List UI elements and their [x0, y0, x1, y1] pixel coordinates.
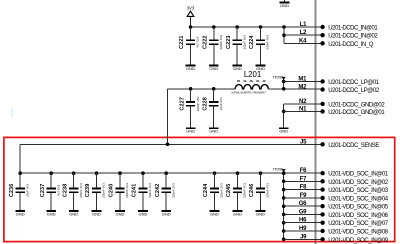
- net label U201-DCDC_GND@01: [328, 110, 385, 116]
- svg-text:F7: F7: [300, 176, 307, 182]
- net label U201-DCDC_LP@02: [328, 88, 379, 94]
- capacitor C246: [249, 173, 270, 216]
- ground (top edge): [280, 0, 290, 8]
- wire DCDC_SENSE: [20, 143, 320, 145]
- svg-text:U201-DCDC_IN@02: U201-DCDC_IN@02: [328, 34, 378, 40]
- pin F9: [300, 193, 325, 200]
- svg-text:GND: GND: [209, 66, 218, 71]
- junction at C244: [213, 171, 217, 175]
- svg-text:C238: C238: [62, 184, 68, 198]
- svg-text:GND: GND: [92, 211, 101, 216]
- svg-text:GND: GND: [16, 211, 25, 216]
- net label U201-DCDC_IN_Q: [328, 42, 373, 48]
- svg-text:3V3: 3V3: [187, 5, 195, 10]
- svg-text:C222: C222: [203, 35, 209, 49]
- capacitor C240: [109, 173, 130, 216]
- svg-text:C236: C236: [9, 184, 15, 198]
- svg-text:C237: C237: [40, 184, 46, 198]
- svg-text:J9: J9: [300, 234, 307, 240]
- wire TP255 drop: [283, 79, 285, 89]
- svg-text:4u7 6V3: 4u7 6V3: [56, 184, 60, 196]
- svg-text:C242: C242: [155, 184, 161, 198]
- pin F7: [300, 176, 325, 183]
- wire 3V3 rail to pin L1: [191, 26, 321, 28]
- wire to pin G6: [282, 204, 320, 208]
- capacitor C241: [132, 173, 153, 216]
- pin G9: [299, 209, 325, 216]
- wire to pin H9: [282, 229, 320, 233]
- wire pin ladder: [283, 173, 285, 239]
- svg-text:F9: F9: [300, 193, 307, 199]
- junction at C246: [259, 171, 263, 175]
- wire branch to L2/K4: [283, 27, 285, 43]
- junction at C237: [49, 171, 53, 175]
- wire to pin N1: [284, 110, 321, 112]
- svg-text:4u7 6V3: 4u7 6V3: [196, 36, 200, 48]
- capacitor C242: [155, 173, 176, 216]
- svg-text:U201-VDD_SOC_IN@05: U201-VDD_SOC_IN@05: [328, 205, 388, 211]
- ground N pins: [279, 128, 289, 133]
- svg-text:C223: C223: [226, 35, 232, 49]
- wire to pin M1: [284, 81, 321, 83]
- svg-text:U201-VDD_SOC_IN@07: U201-VDD_SOC_IN@07: [328, 221, 388, 227]
- capacitor C223: [226, 27, 247, 71]
- svg-text:GND: GND: [186, 66, 195, 71]
- svg-text:220nF 16V: 220nF 16V: [196, 96, 200, 111]
- svg-text:220nF 6V3: 220nF 6V3: [125, 183, 129, 198]
- wire coil to pin M2: [268, 88, 320, 90]
- net label U201-VDD_SOC_IN@01: [328, 172, 388, 178]
- pin F8: [300, 185, 325, 192]
- svg-text:220nF 6V3: 220nF 6V3: [266, 183, 270, 198]
- pin N1: [299, 106, 325, 113]
- net label U201-VDD_SOC_IN@05: [328, 205, 388, 211]
- pin L1: [300, 22, 325, 29]
- wire LP rail drop: [167, 89, 169, 145]
- junction at C245: [236, 171, 240, 175]
- pin F6: [300, 168, 325, 175]
- net label U201-DCDC_GND@02: [328, 102, 385, 108]
- junction at C228: [212, 87, 216, 91]
- svg-text:C221: C221: [179, 35, 185, 49]
- svg-text:GND: GND: [47, 211, 56, 216]
- svg-text:C245: C245: [226, 184, 232, 198]
- svg-text:TP256: TP256: [273, 168, 283, 172]
- svg-text:G6: G6: [299, 201, 307, 207]
- capacitor C222: [203, 27, 224, 71]
- U201 component boundary (sheet edge line): [314, 0, 316, 244]
- svg-text:G9: G9: [299, 209, 307, 215]
- svg-text:GND: GND: [162, 211, 171, 216]
- svg-text:U201-VDD_SOC_IN@01: U201-VDD_SOC_IN@01: [328, 172, 388, 178]
- svg-text:GND: GND: [69, 211, 78, 216]
- wire to pin F8: [282, 188, 320, 192]
- junction at L2: [282, 33, 286, 37]
- junction F6: [282, 171, 286, 175]
- net label U201-DCDC_IN@02: [328, 34, 378, 40]
- wire to pin F7: [282, 180, 320, 184]
- pin H6: [299, 218, 325, 225]
- inductor L201: [231, 70, 268, 94]
- test point TP255: [273, 75, 286, 79]
- capacitor C236: [9, 173, 30, 216]
- svg-text:H6: H6: [299, 218, 307, 224]
- pin M1: [298, 77, 324, 84]
- svg-text:U201-DCDC_SENSE: U201-DCDC_SENSE: [328, 143, 379, 149]
- wire to pin F9: [282, 196, 320, 200]
- svg-text:GND: GND: [233, 66, 242, 71]
- svg-text:C239: C239: [85, 184, 91, 198]
- red highlight box: [4, 137, 395, 241]
- capacitor C224: [249, 27, 270, 71]
- junction at M1: [282, 80, 286, 84]
- svg-text:L201: L201: [244, 70, 261, 79]
- svg-text:L1: L1: [300, 22, 307, 28]
- junction at N1: [282, 110, 286, 114]
- wire N branch: [283, 104, 285, 128]
- net label U201-DCDC_SENSE: [328, 143, 379, 149]
- svg-text:GND: GND: [210, 211, 219, 216]
- svg-text:220nF 6V3: 220nF 6V3: [148, 183, 152, 198]
- svg-text:C241: C241: [132, 184, 138, 198]
- junction at C236: [18, 171, 22, 175]
- junction at C222: [212, 25, 216, 29]
- svg-text:220nF 6V3: 220nF 6V3: [219, 35, 223, 50]
- capacitor C238: [62, 173, 83, 216]
- svg-text:33uF 6V3: 33uF 6V3: [219, 97, 223, 110]
- svg-text:U201-VDD_SOC_IN@02: U201-VDD_SOC_IN@02: [328, 180, 388, 186]
- svg-text:220nF 6V3: 220nF 6V3: [266, 35, 270, 50]
- wire LP rail: [168, 88, 236, 90]
- svg-text:H9: H9: [299, 226, 307, 232]
- svg-text:U201-VDD_SOC_IN@09: U201-VDD_SOC_IN@09: [328, 238, 388, 244]
- pin J5: [300, 139, 325, 146]
- wire to pin G9: [282, 213, 320, 217]
- svg-text:220nF 6V3: 220nF 6V3: [102, 183, 106, 198]
- net label U201-DCDC_IN@01: [328, 26, 378, 32]
- pin M2: [298, 85, 324, 92]
- junction at C223: [235, 25, 239, 29]
- capacitor C221: [179, 27, 200, 71]
- svg-text:GND: GND: [186, 129, 195, 134]
- svg-text:GND: GND: [209, 129, 218, 134]
- power symbol 3V3: [187, 5, 195, 27]
- junction at L2/K4 branch: [282, 25, 286, 29]
- capacitor C245: [226, 173, 247, 216]
- svg-text:GND: GND: [280, 3, 289, 8]
- svg-text:U201-DCDC_GND@01: U201-DCDC_GND@01: [328, 110, 385, 116]
- svg-text:C246: C246: [249, 184, 255, 198]
- capacitor C239: [85, 173, 106, 216]
- junction at C240: [118, 171, 122, 175]
- capacitor C227: [179, 89, 200, 134]
- net label U201-VDD_SOC_IN@03: [328, 188, 388, 194]
- junction sense/LP drop: [166, 143, 170, 147]
- pin N2: [299, 99, 325, 106]
- svg-text:C227: C227: [179, 97, 185, 111]
- svg-text:22uF 6V3: 22uF 6V3: [25, 184, 29, 197]
- svg-text:U201-DCDC_IN_Q: U201-DCDC_IN_Q: [328, 42, 373, 48]
- svg-text:M1: M1: [298, 77, 307, 83]
- svg-text:GND: GND: [139, 211, 148, 216]
- svg-text:GND: GND: [116, 211, 125, 216]
- svg-text:C244: C244: [203, 183, 209, 197]
- svg-text:U201-VDD_SOC_IN@06: U201-VDD_SOC_IN@06: [328, 213, 388, 219]
- pin J9: [300, 234, 325, 241]
- pin H9: [299, 226, 325, 233]
- svg-text:J5: J5: [300, 139, 307, 145]
- net label U201-VDD_SOC_IN@06: [328, 213, 388, 219]
- wire to pin H6: [282, 221, 320, 225]
- svg-text:GND: GND: [256, 211, 265, 216]
- svg-text:N2: N2: [299, 99, 307, 105]
- svg-text:GND: GND: [279, 129, 288, 134]
- junction at C227: [189, 87, 193, 91]
- svg-text:U201-VDD_SOC_IN@04: U201-VDD_SOC_IN@04: [328, 196, 388, 202]
- net label U201-VDD_SOC_IN@04: [328, 196, 388, 202]
- svg-text:M2: M2: [298, 85, 307, 91]
- capacitor C244: [203, 173, 224, 216]
- svg-text:F6: F6: [300, 168, 307, 174]
- svg-text:L2: L2: [300, 30, 307, 36]
- svg-text:U201-VDD_SOC_IN@03: U201-VDD_SOC_IN@03: [328, 188, 388, 194]
- svg-text:220nF 6V3: 220nF 6V3: [220, 183, 224, 198]
- faint blue mark: [11, 108, 13, 117]
- svg-text:TP255: TP255: [273, 75, 283, 79]
- wire sense drop to soc rail: [19, 144, 21, 173]
- junction at C238: [72, 171, 76, 175]
- junction at C221: [189, 25, 193, 29]
- pin G6: [299, 201, 325, 208]
- svg-text:220nF 6V3: 220nF 6V3: [171, 183, 175, 198]
- pin L2: [300, 30, 325, 37]
- junction at C241: [141, 171, 145, 175]
- svg-text:C240: C240: [109, 184, 115, 198]
- svg-text:C228: C228: [202, 97, 208, 111]
- svg-text:K4: K4: [299, 38, 307, 44]
- wire to pin L2: [284, 34, 320, 36]
- junction at C239: [95, 171, 99, 175]
- svg-text:220nF 6V3: 220nF 6V3: [243, 183, 247, 198]
- svg-text:U201-VDD_SOC_IN@08: U201-VDD_SOC_IN@08: [328, 230, 388, 236]
- net label U201-VDD_SOC_IN@02: [328, 180, 388, 186]
- svg-text:C224: C224: [249, 35, 255, 49]
- svg-text:220nF 6V3: 220nF 6V3: [79, 183, 83, 198]
- wire VDD_SOC rail to pin F6: [20, 172, 320, 174]
- svg-text:U201-DCDC_GND@02: U201-DCDC_GND@02: [328, 102, 385, 108]
- wire to pin J9: [282, 238, 320, 242]
- junction ladder top: [282, 171, 286, 175]
- net label U201-VDD_SOC_IN@07: [328, 221, 388, 227]
- svg-text:U201-DCDC_LP@01: U201-DCDC_LP@01: [328, 80, 379, 86]
- svg-text:ALPHA_WUERTH_7440430047: ALPHA_WUERTH_7440430047: [231, 91, 266, 94]
- wire to pin N2: [284, 103, 321, 105]
- svg-text:U201-DCDC_LP@02: U201-DCDC_LP@02: [328, 88, 379, 94]
- svg-text:GND: GND: [233, 211, 242, 216]
- svg-text:N1: N1: [299, 106, 307, 112]
- wire to pin K4: [284, 42, 320, 44]
- junction at C242: [164, 171, 168, 175]
- net label U201-VDD_SOC_IN@08: [328, 230, 388, 236]
- capacitor C237: [40, 173, 61, 216]
- junction at C224: [259, 25, 263, 29]
- net label U201-VDD_SOC_IN@09: [328, 238, 388, 244]
- pin K4: [299, 38, 325, 45]
- test point TP256: [273, 168, 286, 174]
- svg-text:U201-DCDC_IN@01: U201-DCDC_IN@01: [328, 26, 378, 32]
- junction at M2: [282, 87, 286, 91]
- net label U201-DCDC_LP@01: [328, 80, 379, 86]
- svg-text:F8: F8: [300, 185, 307, 191]
- svg-text:220nF 6V3: 220nF 6V3: [242, 35, 246, 50]
- capacitor C228: [202, 89, 223, 134]
